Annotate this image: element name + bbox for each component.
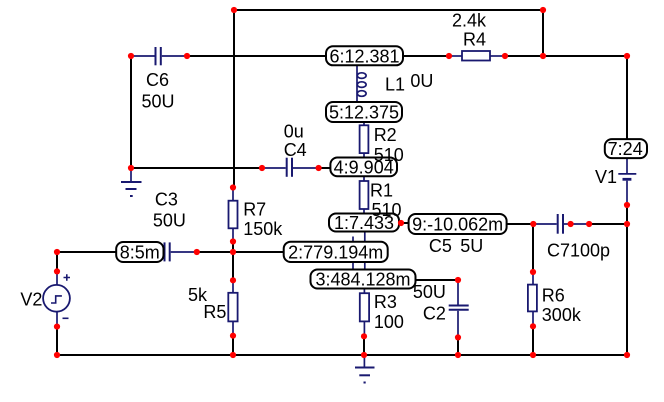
capacitor C7: [533, 214, 589, 234]
wire right drop from top rail: [542, 10, 544, 56]
junction bottom rail at R3: [361, 352, 367, 358]
junction top rail drop: [540, 53, 546, 59]
junction C6 right pin: [184, 53, 190, 59]
node 3 label: [311, 270, 416, 290]
svg-text:C2: C2: [423, 304, 446, 324]
wire C6 left leg down to ground row: [130, 56, 132, 168]
node 6 label: [326, 46, 403, 66]
junction bottom rail right end: [624, 352, 630, 358]
junction R7 bottom pin: [230, 238, 236, 244]
junction V1 minus pin: [624, 202, 630, 208]
node 8 label: [116, 242, 163, 263]
junction bottom rail at C2: [455, 352, 461, 358]
wire row y56 between C6 and R4: [187, 55, 449, 57]
wire R6 bottom to rail: [532, 326, 534, 355]
wire C2 bottom to rail: [457, 337, 459, 355]
junction top rail right: [540, 7, 546, 13]
ground at C6/C4 node: [121, 168, 142, 196]
junction node2 row left corner: [54, 249, 60, 255]
svg-text:C7100p: C7100p: [547, 241, 610, 261]
wire R5 bottom to rail: [232, 336, 234, 355]
capacitor C3: [165, 242, 197, 261]
svg-text:510: 510: [374, 145, 404, 165]
junction C7 left node: [530, 221, 536, 227]
junction C2 bottom pin: [455, 334, 461, 340]
junction bottom rail at R5: [230, 352, 236, 358]
svg-text:C4: C4: [284, 140, 307, 160]
resistor R5: [228, 280, 237, 335]
wire C7 junction down to R6: [532, 224, 534, 272]
svg-text:0U: 0U: [410, 71, 433, 91]
junction top rail left: [231, 7, 237, 13]
battery V1: [618, 158, 636, 205]
svg-text:C5: C5: [429, 236, 452, 256]
svg-text:R5: R5: [203, 302, 226, 322]
svg-text:R3: R3: [374, 292, 397, 312]
junction R4 right pin: [502, 53, 508, 59]
transistor hidden stub emitter: [364, 262, 366, 271]
svg-text:R7: R7: [243, 199, 266, 219]
junction R7 top pin: [230, 184, 236, 190]
svg-text:9:-10.062m: 9:-10.062m: [412, 215, 503, 235]
svg-text:C6: C6: [146, 70, 169, 90]
junction C6 left pin: [128, 53, 134, 59]
junction C7 wire end: [586, 221, 592, 227]
svg-text:5U: 5U: [460, 236, 483, 256]
ground at R3 bottom: [355, 355, 375, 383]
wire right vertical to node 7 label: [626, 56, 628, 139]
wire junction to R5 top: [232, 252, 234, 280]
capacitor C4: [262, 158, 319, 177]
junction C7 right pin: [568, 221, 574, 227]
svg-text:V1: V1: [595, 167, 617, 187]
wire node3 label to C2: [413, 279, 458, 281]
transistor hidden stub base upper: [352, 237, 354, 243]
wire R3 bottom to rail: [363, 336, 365, 355]
svg-text:510: 510: [372, 200, 402, 220]
svg-text:150k: 150k: [243, 219, 283, 239]
junction node2 row at R7: [230, 249, 236, 255]
svg-text:50U: 50U: [413, 282, 446, 302]
wire right vertical V1 to bottom rail: [626, 205, 628, 355]
wire row y56 right of R4: [505, 55, 627, 57]
source V2: [43, 271, 70, 326]
wire V2 bottom to rail: [56, 327, 58, 355]
wire V2 top: [56, 252, 58, 271]
svg-text:L1: L1: [385, 75, 405, 95]
junction ground node left: [128, 165, 134, 171]
svg-text:8:5m: 8:5m: [120, 243, 160, 263]
svg-text:R6: R6: [542, 286, 565, 306]
wire top rail: [234, 9, 543, 11]
svg-text:50U: 50U: [142, 92, 175, 112]
junction R3 bottom pin: [361, 333, 367, 339]
wire C7 right to right vertical: [589, 223, 627, 225]
junction bottom rail at R6: [530, 352, 536, 358]
junction V2 plus pin: [54, 268, 60, 274]
junction node9 right corner: [624, 221, 630, 227]
junction R4 left pin: [446, 53, 452, 59]
junction R6 bottom pin: [530, 323, 536, 329]
svg-text:2:779.194m: 2:779.194m: [288, 242, 383, 262]
junction C4 left pin: [259, 165, 265, 171]
resistor R2: [360, 122, 369, 159]
svg-text:R1: R1: [370, 181, 393, 201]
resistor R7: [229, 188, 238, 242]
svg-text:7:24: 7:24: [608, 139, 643, 159]
node 4 label: [330, 157, 397, 177]
svg-text:5:12.375: 5:12.375: [329, 103, 399, 123]
svg-text:3:484.128m: 3:484.128m: [315, 270, 410, 290]
svg-text:0u: 0u: [284, 122, 304, 142]
node 7 label: [605, 139, 647, 159]
capacitor C6: [131, 47, 187, 65]
resistor R6: [528, 272, 537, 326]
junction C3 right pin: [194, 249, 200, 255]
svg-text:R2: R2: [374, 125, 397, 145]
node 5 label: [326, 102, 402, 123]
wire node2 row left segment to 8:5m label: [57, 251, 118, 253]
junction V2 minus pin: [54, 324, 60, 330]
node 1 label: [329, 213, 399, 233]
node 9 label: [409, 214, 507, 235]
wire row y168 ground to C4: [131, 167, 262, 169]
wire C4 to node 4 label: [319, 167, 332, 169]
junction R6 top pin: [530, 269, 536, 275]
svg-text:R4: R4: [463, 30, 486, 50]
transistor hidden stub collector: [364, 231, 366, 242]
wire node1 to node9 stub: [398, 222, 410, 224]
wire bottom rail: [57, 354, 627, 356]
svg-text:50U: 50U: [153, 211, 186, 231]
wire left vertical from top rail to R7: [233, 10, 235, 188]
svg-text:2.4k: 2.4k: [452, 11, 487, 31]
junction R5 bottom pin: [230, 333, 236, 339]
junction R5 top pin: [230, 277, 236, 283]
svg-text:V2: V2: [20, 290, 42, 310]
junction bottom rail left end: [54, 352, 60, 358]
wire R7 bottom to node 2 row: [232, 241, 234, 253]
node 2 label: [284, 242, 388, 263]
junction C4 right pin: [316, 165, 322, 171]
capacitor C2: [449, 280, 469, 337]
inductor L1: [357, 65, 366, 101]
resistor R4: [449, 51, 505, 61]
svg-text:100: 100: [374, 312, 404, 332]
resistor R1: [360, 176, 369, 214]
resistor R3: [360, 288, 369, 336]
transistor hidden stub base lower: [352, 262, 354, 270]
svg-text:C3: C3: [155, 190, 178, 210]
svg-text:300k: 300k: [542, 305, 582, 325]
junction node7 top corner: [624, 53, 630, 59]
svg-text:6:12.381: 6:12.381: [329, 46, 399, 66]
wire node9 label to C7 junction: [505, 223, 533, 225]
junction C2 top pin: [455, 277, 461, 283]
junction node1 to node9: [398, 220, 404, 226]
wire node2 row C3 to node2 label: [197, 251, 286, 253]
